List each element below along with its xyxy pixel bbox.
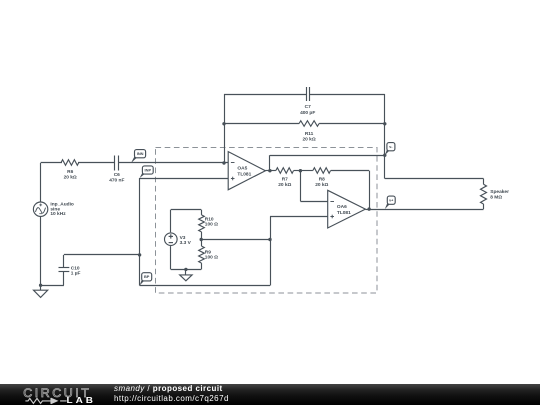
wire input net (R6/C6 row, into OA5 inverting input) (41, 162, 62, 164)
svg-text:100 Ω: 100 Ω (205, 255, 218, 261)
wire speaker top (385, 178, 484, 180)
net flag v- (385, 149, 390, 156)
svg-text:20 kΩ: 20 kΩ (278, 182, 291, 188)
capacitor C6 (114, 156, 116, 171)
wire V3 bottom (170, 246, 172, 269)
node junction source/C10/ground (39, 284, 42, 287)
resistor R7 (270, 170, 276, 172)
wire output row to speaker (369, 209, 483, 211)
svg-text:OA5: OA5 (237, 166, 247, 172)
node junction fb-left/inverting input (222, 161, 225, 164)
svg-text:R9: R9 (205, 249, 211, 255)
svg-text:1 µF: 1 µF (71, 271, 81, 277)
svg-text:3.3 V: 3.3 V (180, 240, 192, 246)
svg-text:R8: R8 (319, 176, 325, 182)
capacitor C10 (63, 255, 65, 268)
wire to C10 bottom (41, 285, 64, 287)
svg-text:C10: C10 (71, 265, 80, 271)
svg-text:R11: R11 (305, 131, 314, 137)
wire OA5 output (265, 170, 270, 172)
resistor Speaker (481, 184, 487, 204)
wire source vertical (40, 163, 42, 202)
resistor R6 (61, 160, 79, 166)
wire OA6 output (365, 209, 369, 211)
wire midpoint to bias column (201, 239, 270, 241)
wire OA5 output to fb row (269, 155, 271, 171)
svg-text:C7: C7 (305, 104, 311, 110)
svg-text:TL081: TL081 (337, 210, 351, 216)
node junction fb-right/R11 (383, 122, 386, 125)
svg-text:INN: INN (137, 151, 144, 156)
svg-text:20 kΩ: 20 kΩ (315, 182, 328, 188)
wire feedback left vertical (224, 94, 226, 163)
op-amp OA6 (328, 190, 366, 228)
net flag INN (131, 156, 137, 163)
svg-text:8 MΩ: 8 MΩ (490, 194, 502, 200)
wire bias to OA6 plus (270, 216, 272, 239)
resistor R10 (201, 210, 203, 215)
resistor R9 (201, 240, 203, 247)
svg-text:470 nF: 470 nF (109, 177, 124, 183)
wire OA5 non-inverting input (140, 178, 229, 180)
dashed sub-circuit boundary box (156, 148, 378, 294)
ground symbol left (40, 285, 42, 290)
node junction OA6 output (367, 207, 370, 210)
svg-text:R6: R6 (67, 169, 73, 175)
wire BP net (140, 285, 270, 287)
node junction R10/R9 midpoint (200, 238, 203, 241)
svg-text:10 kHz: 10 kHz (50, 211, 66, 217)
node junction R7/R8 (299, 169, 302, 172)
svg-text:20 kΩ: 20 kΩ (64, 175, 77, 181)
svg-text:20 kΩ: 20 kΩ (303, 137, 316, 143)
wire bias vertical (INP to BP) (139, 178, 141, 286)
svg-text:100 Ω: 100 Ω (205, 222, 218, 228)
voltage source V3 (165, 233, 178, 246)
svg-text:BP: BP (144, 274, 150, 279)
node junction V3/R9 ground tap (184, 268, 187, 271)
svg-text:LAB: LAB (67, 395, 97, 404)
svg-text:R10: R10 (205, 217, 214, 223)
svg-text:Speaker: Speaker (490, 189, 509, 195)
svg-text:C6: C6 (114, 172, 120, 178)
svg-text:TL081: TL081 (237, 171, 251, 177)
resistor R11 (224, 123, 299, 125)
net flag INP (140, 172, 145, 178)
wire V3 top (171, 209, 201, 211)
wire R7 node to OA6 inverting (300, 171, 302, 202)
wire C10 to bias node (64, 254, 140, 256)
node junction bias column (268, 238, 271, 241)
svg-text:R7: R7 (282, 176, 288, 182)
wire R8 to OA6 output (369, 171, 371, 209)
resistor R8 (300, 170, 313, 172)
svg-text:v+: v+ (389, 199, 393, 203)
ground symbol V3 (185, 269, 187, 274)
CircuitLab logo (0, 384, 110, 405)
op-amp OA5 (228, 152, 265, 190)
node junction C10/bias (138, 253, 141, 256)
wire feedback right vertical (384, 94, 386, 179)
svg-text:INP: INP (145, 167, 152, 172)
capacitor C7 (224, 94, 307, 96)
net flag v+ (385, 202, 390, 209)
net flag BP (140, 279, 145, 286)
node junction OA5 output (268, 169, 271, 172)
node junction fb-left/R11 (222, 122, 225, 125)
voltage source Inp_Audio V-sine (33, 202, 47, 216)
footer bar (0, 384, 540, 405)
svg-text:OA6: OA6 (337, 204, 347, 210)
svg-text:V3: V3 (180, 235, 186, 241)
svg-text:400 pF: 400 pF (300, 110, 315, 116)
node junction fb-right/v- tap (383, 154, 386, 157)
